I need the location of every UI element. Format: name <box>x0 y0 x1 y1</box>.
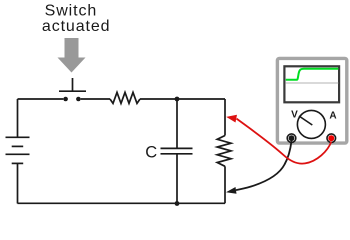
resistor R1 (top) <box>110 92 140 103</box>
black probe arrowhead <box>226 187 237 194</box>
capacitor C branch wires <box>176 99 178 204</box>
svg-text:Switch: Switch <box>45 2 98 19</box>
node junction top (capacitor tap) <box>175 97 180 102</box>
wire top-left segment <box>18 98 64 100</box>
wire bottom <box>18 202 226 204</box>
terminal COM (black) <box>287 134 296 143</box>
terminal V/A (red) <box>327 134 336 143</box>
resistor R2 (right, vertical) <box>217 136 231 167</box>
switch SW1 (pushbutton, normally open) <box>59 78 86 101</box>
svg-text:C: C <box>145 143 157 161</box>
svg-text:V: V <box>291 110 298 121</box>
battery B1 <box>6 137 30 163</box>
red probe arrowhead <box>226 115 237 123</box>
meter U1 body <box>277 58 346 143</box>
svg-text:A: A <box>329 111 336 122</box>
svg-text:actuated: actuated <box>42 18 111 35</box>
wire switch to resistor <box>81 98 110 100</box>
green trace (RC charge curve) <box>286 69 339 80</box>
wire left side (battery branch) <box>17 99 19 204</box>
red probe lead <box>237 119 332 164</box>
capacitor C plates <box>161 148 193 153</box>
screen midline <box>286 82 339 84</box>
black probe lead <box>236 141 292 190</box>
wire right branch top <box>224 99 226 136</box>
wire right branch bottom <box>224 166 226 203</box>
meter screen <box>284 66 339 102</box>
wire resistor to top-right corner <box>140 98 225 100</box>
dial needle <box>299 116 312 125</box>
node junction bottom <box>175 201 180 206</box>
actuator arrow (gray) <box>58 38 86 73</box>
meter dial <box>297 110 325 138</box>
